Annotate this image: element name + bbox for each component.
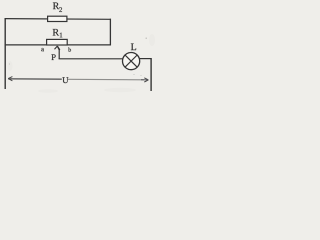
label R2 (subscript 2) xyxy=(59,7,62,12)
label L (lamp) xyxy=(131,44,136,51)
wire: R1 rail from left vertical to right-mid vertical (through R1) xyxy=(5,44,111,46)
node label a (left end of R1) xyxy=(41,48,44,51)
wire: right outer vertical (terminal wire) down past U arrow xyxy=(150,58,152,91)
wire: lamp row from wiper bend to lamp xyxy=(59,58,123,60)
resistor R1 (rheostat track box) xyxy=(47,39,68,45)
wire: right-mid vertical joining top rail and R1 rail xyxy=(109,19,111,46)
label R1 (subscript 1) xyxy=(60,33,62,38)
resistor R2 (box) xyxy=(48,16,67,21)
label P (wiper) xyxy=(51,54,55,60)
paper texture patches xyxy=(8,34,156,93)
node label b (right end of R1) xyxy=(68,47,71,51)
paper background xyxy=(0,0,156,94)
wire: top rail from left vertical to right-mid vertical (through R2) xyxy=(5,18,111,21)
label R1 (letter R) xyxy=(53,29,59,36)
wire: left vertical (terminal wire) from top rail down past U arrow xyxy=(4,18,6,89)
wire: lamp right lead to right outer vertical xyxy=(140,58,152,60)
paper specks xyxy=(9,38,147,76)
wiper P arrow pointing up into R1 xyxy=(55,46,60,59)
lamp L (circle with cross) xyxy=(123,53,140,70)
label R2 (letter R) xyxy=(53,3,59,10)
voltage U annotation: left arrow segment xyxy=(8,77,62,81)
voltage U annotation: right arrow segment (faint in scan) xyxy=(68,78,149,82)
label U (source voltage) xyxy=(62,77,68,83)
